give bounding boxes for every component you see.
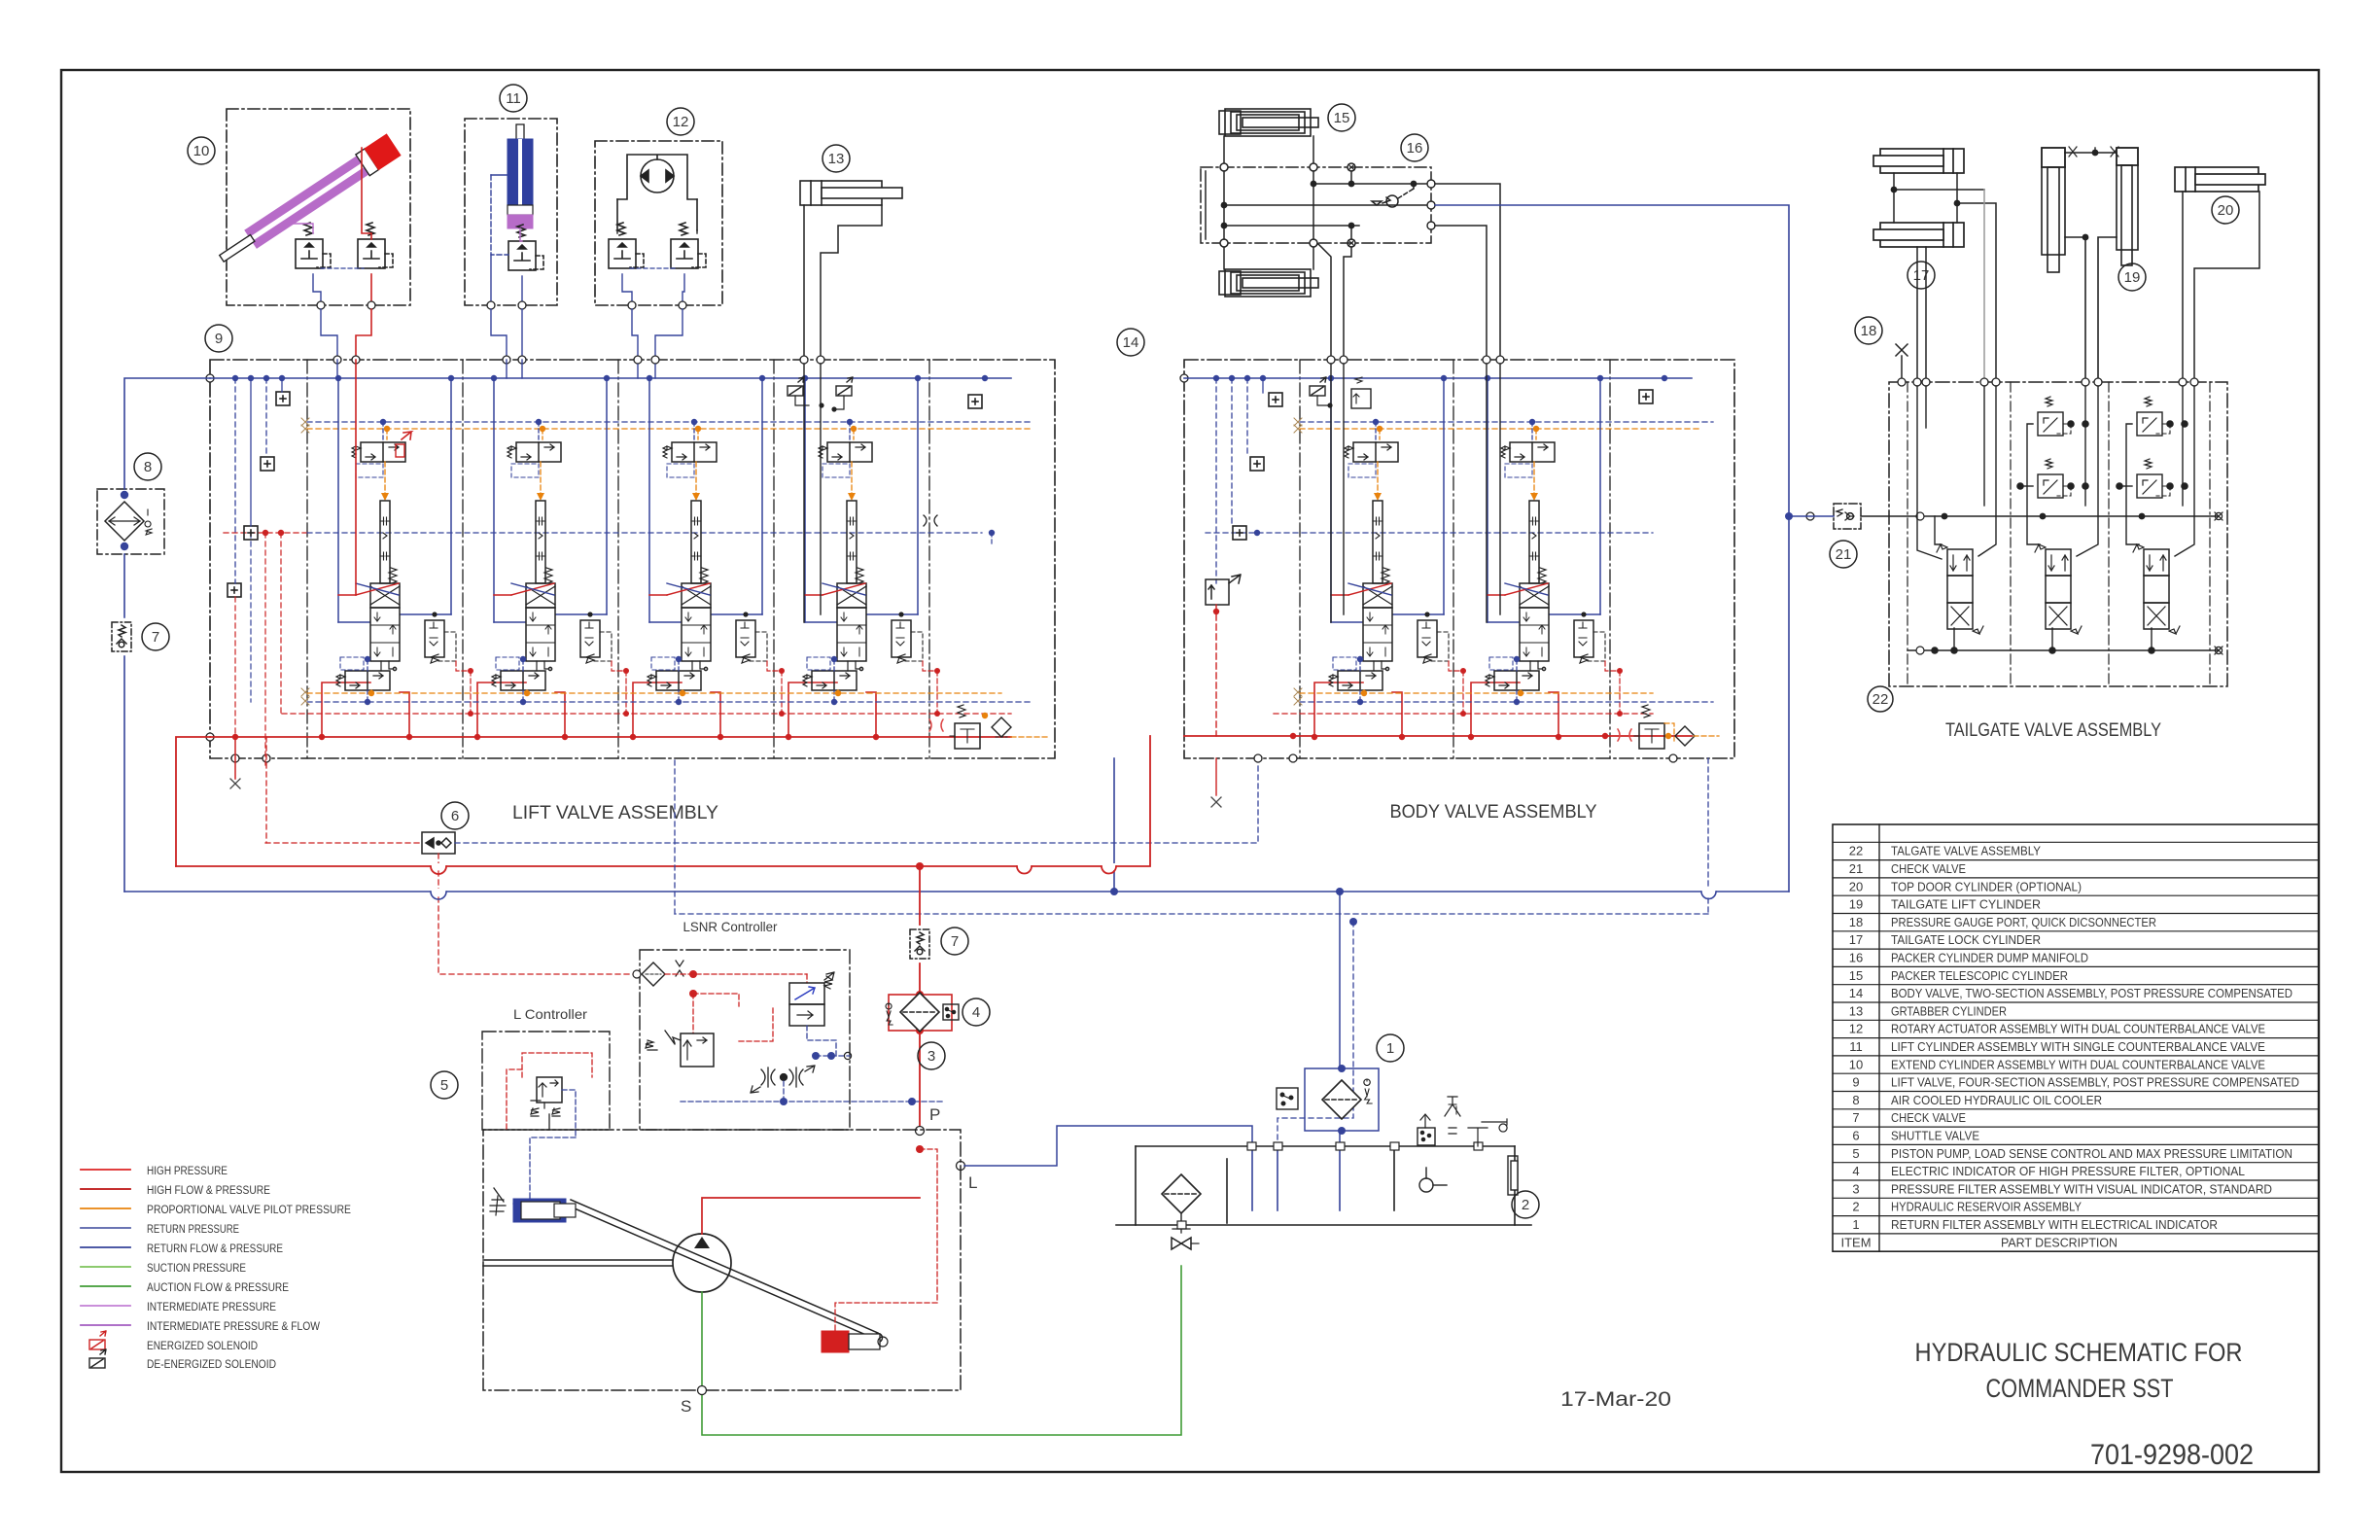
svg-text:ENERGIZED SOLENOID: ENERGIZED SOLENOID — [147, 1339, 258, 1352]
wires down to lift box — [321, 309, 337, 360]
outlet section relief + filter — [929, 705, 980, 749]
svg-text:1: 1 — [1852, 1217, 1859, 1232]
svg-text:LIFT VALVE ASSEMBLY: LIFT VALVE ASSEMBLY — [512, 802, 718, 823]
svg-text:21: 21 — [1836, 546, 1852, 563]
return bus (blue) across top — [210, 377, 1011, 379]
cyl lines into sections (blue drops from top ports) — [507, 360, 655, 378]
svg-text:AIR COOLED HYDRAULIC OIL COOLE: AIR COOLED HYDRAULIC OIL COOLER — [1891, 1093, 2102, 1107]
svg-text:18: 18 — [1861, 323, 1877, 339]
blue work line up to lift box — [1113, 758, 1115, 892]
svg-text:7: 7 — [152, 629, 159, 646]
port circles on top edge — [206, 356, 824, 762]
check valve 7 (left) — [112, 622, 131, 651]
red solid pump outlet — [702, 1198, 920, 1234]
svg-text:RETURN PRESSURE: RETURN PRESSURE — [147, 1222, 239, 1236]
svg-text:INTERMEDIATE PRESSURE & FLOW: INTERMEDIATE PRESSURE & FLOW — [147, 1319, 320, 1333]
L controller internals — [531, 1077, 562, 1130]
svg-text:9: 9 — [1852, 1075, 1859, 1090]
svg-text:5: 5 — [440, 1077, 448, 1094]
bottom blue dashed bus — [307, 701, 1032, 703]
pressure gauge port 18 — [1855, 317, 1882, 344]
red supply bus — [1184, 735, 1692, 737]
ports top — [1180, 356, 1677, 762]
legend: intermediate pressure & flow — [81, 1324, 130, 1326]
wires 20 — [2183, 192, 2259, 382]
svg-text:PISTON PUMP, LOAD SENSE CONTRO: PISTON PUMP, LOAD SENSE CONTROL AND MAX … — [1891, 1146, 2292, 1161]
wire jump arcs — [431, 863, 1716, 899]
internal mid line — [1861, 515, 2219, 517]
section 1 wires — [1917, 386, 1996, 650]
legend: de-energized solenoid — [89, 1349, 106, 1368]
top inlet solenoid + relief — [1310, 377, 1326, 396]
svg-text:L: L — [968, 1173, 977, 1192]
svg-text:TAILGATE LIFT CYLINDER: TAILGATE LIFT CYLINDER — [1891, 897, 2041, 912]
svg-text:13: 13 — [1849, 1003, 1863, 1018]
svg-text:ITEM: ITEM — [1840, 1235, 1871, 1249]
svg-text:12: 12 — [1849, 1022, 1863, 1036]
svg-text:20: 20 — [2218, 202, 2234, 219]
outlet relief + filter — [1618, 705, 1664, 749]
bottom orange dashed bus — [307, 692, 1001, 694]
legend: suction pressure — [81, 1266, 130, 1268]
wire purple cyl10 to valve — [289, 224, 313, 233]
L controller box — [482, 1032, 610, 1130]
svg-text:17-Mar-20: 17-Mar-20 — [1560, 1388, 1671, 1411]
swash plate (angled double line) — [568, 1200, 883, 1343]
svg-text:5: 5 — [1852, 1146, 1859, 1161]
tailgate lock cylinder 17 (lower) — [1873, 223, 1964, 247]
svg-text:P: P — [929, 1105, 940, 1124]
svg-text:10: 10 — [1849, 1057, 1863, 1071]
svg-text:PACKER CYLINDER DUMP MANIFOLD: PACKER CYLINDER DUMP MANIFOLD — [1891, 951, 2088, 965]
suction strainer in tank — [1162, 1174, 1201, 1213]
svg-text:BODY VALVE, TWO-SECTION ASSEMB: BODY VALVE, TWO-SECTION ASSEMBLY, POST P… — [1891, 986, 2292, 1000]
svg-text:EXTEND CYLINDER ASSEMBLY WITH: EXTEND CYLINDER ASSEMBLY WITH DUAL COUNT… — [1891, 1057, 2265, 1071]
svg-text:11: 11 — [1849, 1039, 1863, 1054]
svg-text:17: 17 — [1849, 932, 1863, 947]
svg-text:19: 19 — [1849, 897, 1863, 912]
svg-text:21: 21 — [1849, 861, 1863, 876]
bottom bus — [1907, 649, 2219, 651]
svg-text:L Controller: L Controller — [513, 1006, 587, 1022]
pressure filter assembly 3 with electric indicator 4 — [889, 995, 952, 1031]
svg-text:15: 15 — [1334, 110, 1350, 126]
return bus (blue) bottom — [124, 891, 1789, 892]
counterbalance valve pair of 10 — [296, 223, 331, 268]
LSNR flow control pair — [751, 1066, 815, 1093]
inlet column squares — [276, 392, 290, 405]
check valve 7 (pump line) — [910, 929, 929, 959]
svg-text:HIGH FLOW & PRESSURE: HIGH FLOW & PRESSURE — [147, 1183, 270, 1197]
svg-text:RETURN FLOW & PRESSURE: RETURN FLOW & PRESSURE — [147, 1242, 283, 1255]
svg-text:COMMANDER SST: COMMANDER SST — [1986, 1374, 2174, 1403]
pump rotary group — [673, 1234, 731, 1292]
top door cylinder 20 — [2175, 167, 2265, 192]
piston pump assembly box 5 — [483, 1130, 961, 1390]
port circles 10 — [317, 301, 325, 309]
P / L port labels — [916, 1127, 925, 1136]
svg-text:PROPORTIONAL VALVE PILOT PRESS: PROPORTIONAL VALVE PILOT PRESSURE — [147, 1203, 351, 1216]
svg-text:INTERMEDIATE PRESSURE: INTERMEDIATE PRESSURE — [147, 1300, 276, 1313]
body valve assembly box 14 — [1184, 360, 1734, 758]
return filter drop (blue) — [1339, 892, 1341, 1068]
svg-text:HYDRAULIC RESERVOIR ASSEMBLY: HYDRAULIC RESERVOIR ASSEMBLY — [1891, 1200, 2082, 1214]
ports on top edge — [1898, 378, 2198, 386]
svg-text:10: 10 — [193, 143, 210, 159]
item balloon 12 — [667, 108, 694, 135]
svg-text:16: 16 — [1407, 140, 1423, 157]
grabber cylinder 13 — [822, 145, 850, 172]
blue dashed mid bus (dropping) — [250, 533, 252, 702]
inlet relief valve — [1206, 575, 1241, 605]
shuttle valve 6 — [441, 802, 469, 829]
rotary actuator assembly box 12 — [595, 141, 722, 305]
svg-text:18: 18 — [1849, 915, 1863, 929]
svg-text:6: 6 — [1852, 1129, 1859, 1143]
svg-text:3: 3 — [927, 1048, 935, 1065]
extend cylinder (purple, angled) — [215, 134, 401, 269]
tailgate valve assembly box 22 — [1889, 382, 2227, 686]
legend: proportional valve pilot pressure — [81, 1207, 130, 1209]
drain valve — [1172, 1229, 1199, 1249]
air cooled oil cooler 8 — [97, 489, 164, 554]
svg-text:RETURN FILTER ASSEMBLY WITH EL: RETURN FILTER ASSEMBLY WITH ELECTRICAL I… — [1891, 1217, 2218, 1232]
svg-text:1: 1 — [1386, 1040, 1394, 1057]
svg-text:PART DESCRIPTION: PART DESCRIPTION — [2001, 1235, 2117, 1249]
return line manifold to cooler loop (blue) — [1435, 205, 1789, 516]
hydraulic reservoir 2 — [1116, 1146, 1531, 1225]
svg-text:LIFT VALVE, FOUR-SECTION ASSEM: LIFT VALVE, FOUR-SECTION ASSEMBLY, POST … — [1891, 1075, 2299, 1090]
item balloon 10 — [188, 137, 215, 164]
high pressure bus (red) to pump P — [176, 736, 1150, 866]
svg-text:20: 20 — [1849, 879, 1863, 893]
top connect w/ orifice checks — [2065, 152, 2117, 154]
svg-text:S: S — [681, 1397, 691, 1416]
tailgate lock cylinder 17 (upper) — [1873, 149, 1964, 173]
inlet vertical drops — [235, 378, 282, 583]
wire manifold to body box (black pair) — [1435, 184, 1500, 360]
wires manifold bottom to body box — [1317, 243, 1331, 360]
svg-text:LIFT CYLINDER ASSEMBLY WITH SI: LIFT CYLINDER ASSEMBLY WITH SINGLE COUNT… — [1891, 1039, 2265, 1054]
svg-text:7: 7 — [1852, 1110, 1859, 1125]
svg-text:DE-ENERGIZED SOLENOID: DE-ENERGIZED SOLENOID — [147, 1357, 276, 1371]
L return to tank (blue) — [964, 1126, 1252, 1166]
inlet squares — [1269, 393, 1282, 406]
svg-text:22: 22 — [1872, 691, 1889, 708]
LSNR controller box — [640, 950, 850, 1130]
LSNR internals — [633, 970, 641, 978]
packer telescopic cylinder 15 (bottom) — [1219, 269, 1318, 297]
orange dashed pilot bus — [307, 428, 1032, 430]
svg-text:14: 14 — [1849, 986, 1863, 1000]
legend: energized solenoid — [89, 1331, 106, 1349]
black cylinder drops — [1331, 364, 1500, 622]
legend: return flow & pressure — [81, 1246, 130, 1248]
relief w/ spring in manifold — [1372, 197, 1390, 205]
svg-text:4: 4 — [972, 1004, 980, 1021]
drive shaft — [483, 1259, 673, 1261]
wires 11 — [520, 228, 522, 241]
svg-text:13: 13 — [828, 151, 845, 167]
valve sections — [1312, 375, 1466, 740]
svg-text:701-9298-002: 701-9298-002 — [2090, 1439, 2254, 1471]
bottom edge ports and red cross mark — [230, 779, 240, 788]
section separators — [1300, 360, 1610, 758]
svg-text:3: 3 — [1852, 1181, 1859, 1196]
svg-text:11: 11 — [506, 90, 521, 107]
svg-text:8: 8 — [1852, 1093, 1859, 1107]
LSNR solenoid valve — [789, 972, 834, 1026]
tank top ports — [1177, 1142, 1483, 1229]
valve sections 1-4 — [319, 375, 473, 740]
blue dashed LS bus — [307, 421, 1032, 423]
green suction line — [702, 1266, 1181, 1435]
blue dashed LS from body box down — [1707, 758, 1709, 914]
parts table frame — [1833, 824, 2319, 1251]
svg-text:SUCTION PRESSURE: SUCTION PRESSURE — [147, 1261, 246, 1275]
svg-text:6: 6 — [451, 808, 459, 824]
svg-text:ROTARY ACTUATOR ASSEMBLY WITH: ROTARY ACTUATOR ASSEMBLY WITH DUAL COUNT… — [1891, 1022, 2265, 1036]
svg-text:4: 4 — [1852, 1164, 1859, 1178]
legend: intermediate pressure — [81, 1305, 130, 1307]
return bus — [1184, 377, 1692, 379]
wires 12 — [616, 230, 618, 233]
bottom buses — [1300, 692, 1653, 694]
packer cylinder dump manifold 16 — [1201, 167, 1431, 243]
legend: high flow & pressure — [81, 1188, 130, 1190]
tailgate lift cylinder 19 (left) — [2042, 147, 2138, 382]
return filter assembly 1 — [1305, 1068, 1379, 1131]
svg-text:AUCTION FLOW & PRESSURE: AUCTION FLOW & PRESSURE — [147, 1280, 289, 1294]
svg-text:GRTABBER CYLINDER: GRTABBER CYLINDER — [1891, 1003, 2007, 1018]
legend: return pressure — [81, 1227, 130, 1229]
lift valve assembly box 9 — [210, 360, 1055, 758]
svg-text:TAILGATE LOCK CYLINDER: TAILGATE LOCK CYLINDER — [1891, 932, 2041, 947]
svg-text:SHUTTLE VALVE: SHUTTLE VALVE — [1891, 1129, 1979, 1143]
rotary actuator 12 — [617, 155, 697, 230]
supply red vertical to sec1 — [355, 360, 357, 595]
LS dashed drop to LSNR — [1277, 922, 1353, 1146]
svg-text:LSNR Controller: LSNR Controller — [683, 919, 778, 934]
svg-text:CHECK VALVE: CHECK VALVE — [1891, 861, 1966, 876]
shuttle connections — [265, 842, 422, 844]
red line P riser — [919, 866, 921, 925]
legend: high pressure — [81, 1169, 130, 1171]
legend: suction flow & pressure — [81, 1285, 130, 1287]
svg-text:16: 16 — [1849, 951, 1863, 965]
svg-text:22: 22 — [1849, 844, 1863, 858]
dashed buses — [1300, 421, 1713, 423]
svg-text:PACKER TELESCOPIC CYLINDER: PACKER TELESCOPIC CYLINDER — [1891, 968, 2068, 983]
energized solenoid marker on section1 pilot — [402, 432, 411, 439]
counterbalance valve pair of 12 — [609, 223, 644, 268]
section separators — [307, 360, 929, 758]
section 3 counterbalance valves — [2119, 386, 2194, 650]
svg-text:8: 8 — [144, 459, 152, 475]
bottom connect — [2065, 237, 2085, 382]
svg-text:HIGH PRESSURE: HIGH PRESSURE — [147, 1164, 227, 1177]
svg-text:TOP DOOR CYLINDER (OPTIONAL): TOP DOOR CYLINDER (OPTIONAL) — [1891, 879, 2082, 893]
breather + gauge — [1417, 1097, 1518, 1195]
section 2 counterbalance valves — [2020, 386, 2098, 650]
wire red cyl10 — [362, 148, 371, 239]
svg-text:TAILGATE VALVE ASSEMBLY: TAILGATE VALVE ASSEMBLY — [1945, 719, 2161, 741]
svg-text:ELECTRIC INDICATOR OF HIGH PRE: ELECTRIC INDICATOR OF HIGH PRESSURE FILT… — [1891, 1164, 2245, 1178]
counterbalance valve of 11 — [508, 225, 543, 270]
svg-text:17: 17 — [1913, 267, 1930, 284]
LSNR pressure reducing valve — [646, 1031, 714, 1067]
lift cylinder assembly box 11 — [465, 119, 557, 305]
svg-text:7: 7 — [951, 933, 959, 950]
svg-text:15: 15 — [1849, 968, 1863, 983]
svg-text:2: 2 — [1522, 1197, 1529, 1213]
svg-text:BODY VALVE ASSEMBLY: BODY VALVE ASSEMBLY — [1390, 801, 1597, 822]
item balloon 11 — [500, 85, 527, 112]
top right deenergized solenoids — [787, 377, 804, 396]
svg-text:12: 12 — [673, 114, 689, 130]
wires cylinder 13 down to lift box — [803, 205, 805, 360]
check valve 21 — [1834, 504, 1861, 529]
bottom red dashed bus — [282, 713, 1011, 715]
blue compensator cylinder — [513, 1199, 566, 1222]
X drain mark — [1211, 797, 1221, 807]
red dashed mid bus — [224, 532, 307, 534]
svg-text:2: 2 — [1852, 1200, 1859, 1214]
svg-text:TALGATE VALVE ASSEMBLY: TALGATE VALVE ASSEMBLY — [1891, 844, 2041, 858]
red actuator piston — [822, 1331, 849, 1352]
svg-text:19: 19 — [2124, 269, 2141, 286]
lift cylinder (blue) — [507, 124, 533, 228]
wires valves to ports 10 — [313, 274, 321, 304]
extend cylinder assembly box 10 — [227, 109, 410, 305]
svg-text:HYDRAULIC SCHEMATIC FOR: HYDRAULIC SCHEMATIC FOR — [1915, 1338, 2243, 1367]
wires 17 — [1894, 173, 1996, 382]
3 spool valves — [1937, 544, 1983, 634]
red supply bus inside box — [210, 736, 1011, 738]
svg-text:CHECK VALVE: CHECK VALVE — [1891, 1110, 1966, 1125]
return riser (blue) — [124, 378, 210, 489]
svg-text:PRESSURE FILTER ASSEMBLY WITH: PRESSURE FILTER ASSEMBLY WITH VISUAL IND… — [1891, 1181, 2272, 1196]
svg-text:14: 14 — [1123, 334, 1139, 351]
packer telescopic cylinder 15 (top) — [1328, 104, 1355, 131]
red dashed pilot to actuator — [835, 1149, 937, 1331]
manifold internals — [1206, 136, 1431, 269]
svg-text:PRESSURE GAUGE PORT, QUICK DIC: PRESSURE GAUGE PORT, QUICK DICSONNECTER — [1891, 915, 2156, 929]
svg-text:9: 9 — [215, 331, 223, 347]
